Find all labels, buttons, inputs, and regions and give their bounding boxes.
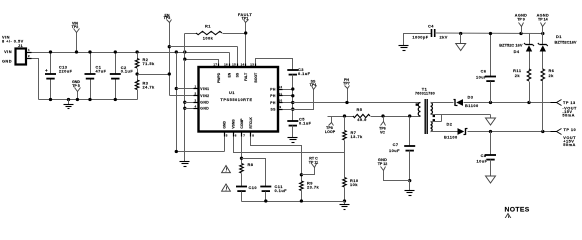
- svg-text:1: 1: [195, 85, 197, 89]
- svg-text:2kV: 2kV: [440, 35, 448, 40]
- svg-text:B1100: B1100: [444, 135, 458, 140]
- svg-text:24.7k: 24.7k: [143, 85, 155, 90]
- svg-text:100k: 100k: [203, 36, 214, 41]
- svg-text:10uF: 10uF: [476, 75, 487, 80]
- svg-text:1000pF: 1000pF: [412, 35, 428, 40]
- svg-text:TP 5: TP 5: [72, 84, 80, 88]
- svg-text:PH: PH: [270, 101, 276, 105]
- svg-text:13: 13: [250, 63, 254, 67]
- svg-text:2k: 2k: [515, 73, 521, 78]
- svg-text:47uF: 47uF: [96, 68, 107, 73]
- svg-text:FALT: FALT: [244, 72, 248, 81]
- svg-text:TP 11: TP 11: [309, 161, 318, 165]
- svg-text:NOTES: NOTES: [505, 207, 530, 214]
- svg-text:EN: EN: [228, 72, 232, 77]
- svg-text:C6: C6: [481, 69, 487, 74]
- svg-text:0.1uF: 0.1uF: [275, 188, 288, 193]
- svg-text:D3: D3: [468, 94, 474, 99]
- svg-text:C10: C10: [249, 185, 258, 190]
- svg-text:D4: D4: [514, 49, 520, 54]
- svg-text:10uF: 10uF: [477, 159, 488, 164]
- svg-text:15: 15: [232, 63, 236, 67]
- svg-text:SS: SS: [270, 108, 276, 112]
- svg-text:R5: R5: [357, 107, 363, 112]
- svg-text:LOOP: LOOP: [325, 130, 336, 134]
- svg-text:7: 7: [243, 134, 245, 138]
- svg-text:GND: GND: [222, 121, 226, 129]
- svg-text:PH: PH: [270, 94, 276, 98]
- svg-text:GND: GND: [200, 101, 209, 105]
- svg-text:D2: D2: [447, 122, 453, 127]
- svg-text:71.5k: 71.5k: [143, 61, 155, 66]
- svg-text:50mA: 50mA: [562, 112, 574, 117]
- svg-text:TPS55010RTE: TPS55010RTE: [220, 97, 252, 102]
- svg-text:50mA: 50mA: [563, 142, 575, 147]
- svg-text:6: 6: [235, 134, 237, 138]
- svg-text:220uF: 220uF: [59, 68, 73, 73]
- svg-text:0.1uF: 0.1uF: [121, 69, 134, 74]
- svg-text:J1: J1: [18, 43, 24, 48]
- svg-text:PH: PH: [270, 87, 276, 91]
- svg-text:TP 10: TP 10: [564, 127, 577, 132]
- svg-text:TP 14: TP 14: [538, 17, 548, 21]
- svg-text:SS: SS: [236, 72, 240, 77]
- svg-text:TP 12: TP 12: [378, 162, 388, 166]
- svg-text:4: 4: [195, 104, 197, 108]
- svg-text:5: 5: [226, 134, 228, 138]
- svg-text:PWPD: PWPD: [217, 72, 221, 83]
- svg-text:TP2: TP2: [72, 25, 79, 29]
- svg-text:GND: GND: [2, 59, 12, 64]
- svg-text:C8: C8: [481, 153, 487, 158]
- svg-text:0.1uF: 0.1uF: [299, 120, 312, 125]
- svg-text:2k: 2k: [549, 73, 555, 78]
- svg-text:VSNS: VSNS: [231, 119, 235, 129]
- svg-text:RTCLK: RTCLK: [249, 117, 253, 129]
- svg-text:VIN1: VIN1: [200, 87, 209, 91]
- svg-text:3: 3: [195, 98, 197, 102]
- svg-text:23.7k: 23.7k: [307, 185, 319, 190]
- svg-text:10: 10: [279, 99, 283, 103]
- svg-text:B1100: B1100: [465, 103, 479, 108]
- svg-text:49.9: 49.9: [357, 117, 367, 122]
- svg-text:2: 2: [195, 92, 197, 96]
- svg-text:1: 1: [28, 48, 30, 52]
- svg-text:10k: 10k: [350, 182, 358, 187]
- svg-text:13.7k: 13.7k: [351, 134, 363, 139]
- svg-text:9: 9: [280, 105, 282, 109]
- svg-text:760311780: 760311780: [415, 92, 435, 96]
- svg-text:R1: R1: [205, 24, 211, 29]
- svg-text:12: 12: [279, 85, 283, 89]
- svg-text:VC: VC: [380, 131, 385, 135]
- svg-text:TP7: TP7: [343, 82, 350, 86]
- svg-text:17: 17: [213, 63, 217, 67]
- svg-text:0.1uF: 0.1uF: [298, 71, 311, 76]
- svg-text:BOOT: BOOT: [254, 72, 258, 83]
- svg-text:BZT52C 16V: BZT52C 16V: [499, 42, 523, 47]
- svg-text:16: 16: [224, 63, 228, 67]
- svg-text:TP4: TP4: [310, 83, 317, 87]
- svg-text:VIN2: VIN2: [200, 94, 209, 98]
- svg-text:11: 11: [279, 92, 283, 96]
- svg-text:+: +: [45, 68, 48, 73]
- svg-text:8: 8: [252, 134, 254, 138]
- svg-text:C7: C7: [393, 142, 399, 147]
- svg-text:GND: GND: [200, 107, 209, 111]
- svg-text:U1: U1: [229, 90, 235, 95]
- svg-text:TP3: TP3: [164, 16, 171, 20]
- svg-text:COMP: COMP: [240, 118, 244, 129]
- svg-text:BZT52C16V: BZT52C16V: [555, 39, 577, 44]
- svg-text:VIN: VIN: [4, 49, 12, 54]
- svg-text:TP 9: TP 9: [517, 17, 525, 21]
- svg-text:R8: R8: [248, 162, 254, 167]
- svg-text:TP1: TP1: [242, 17, 249, 21]
- svg-text:2: 2: [28, 54, 30, 58]
- svg-text:10uF: 10uF: [389, 148, 400, 153]
- svg-text:C4: C4: [428, 24, 434, 29]
- svg-text:14: 14: [241, 63, 245, 67]
